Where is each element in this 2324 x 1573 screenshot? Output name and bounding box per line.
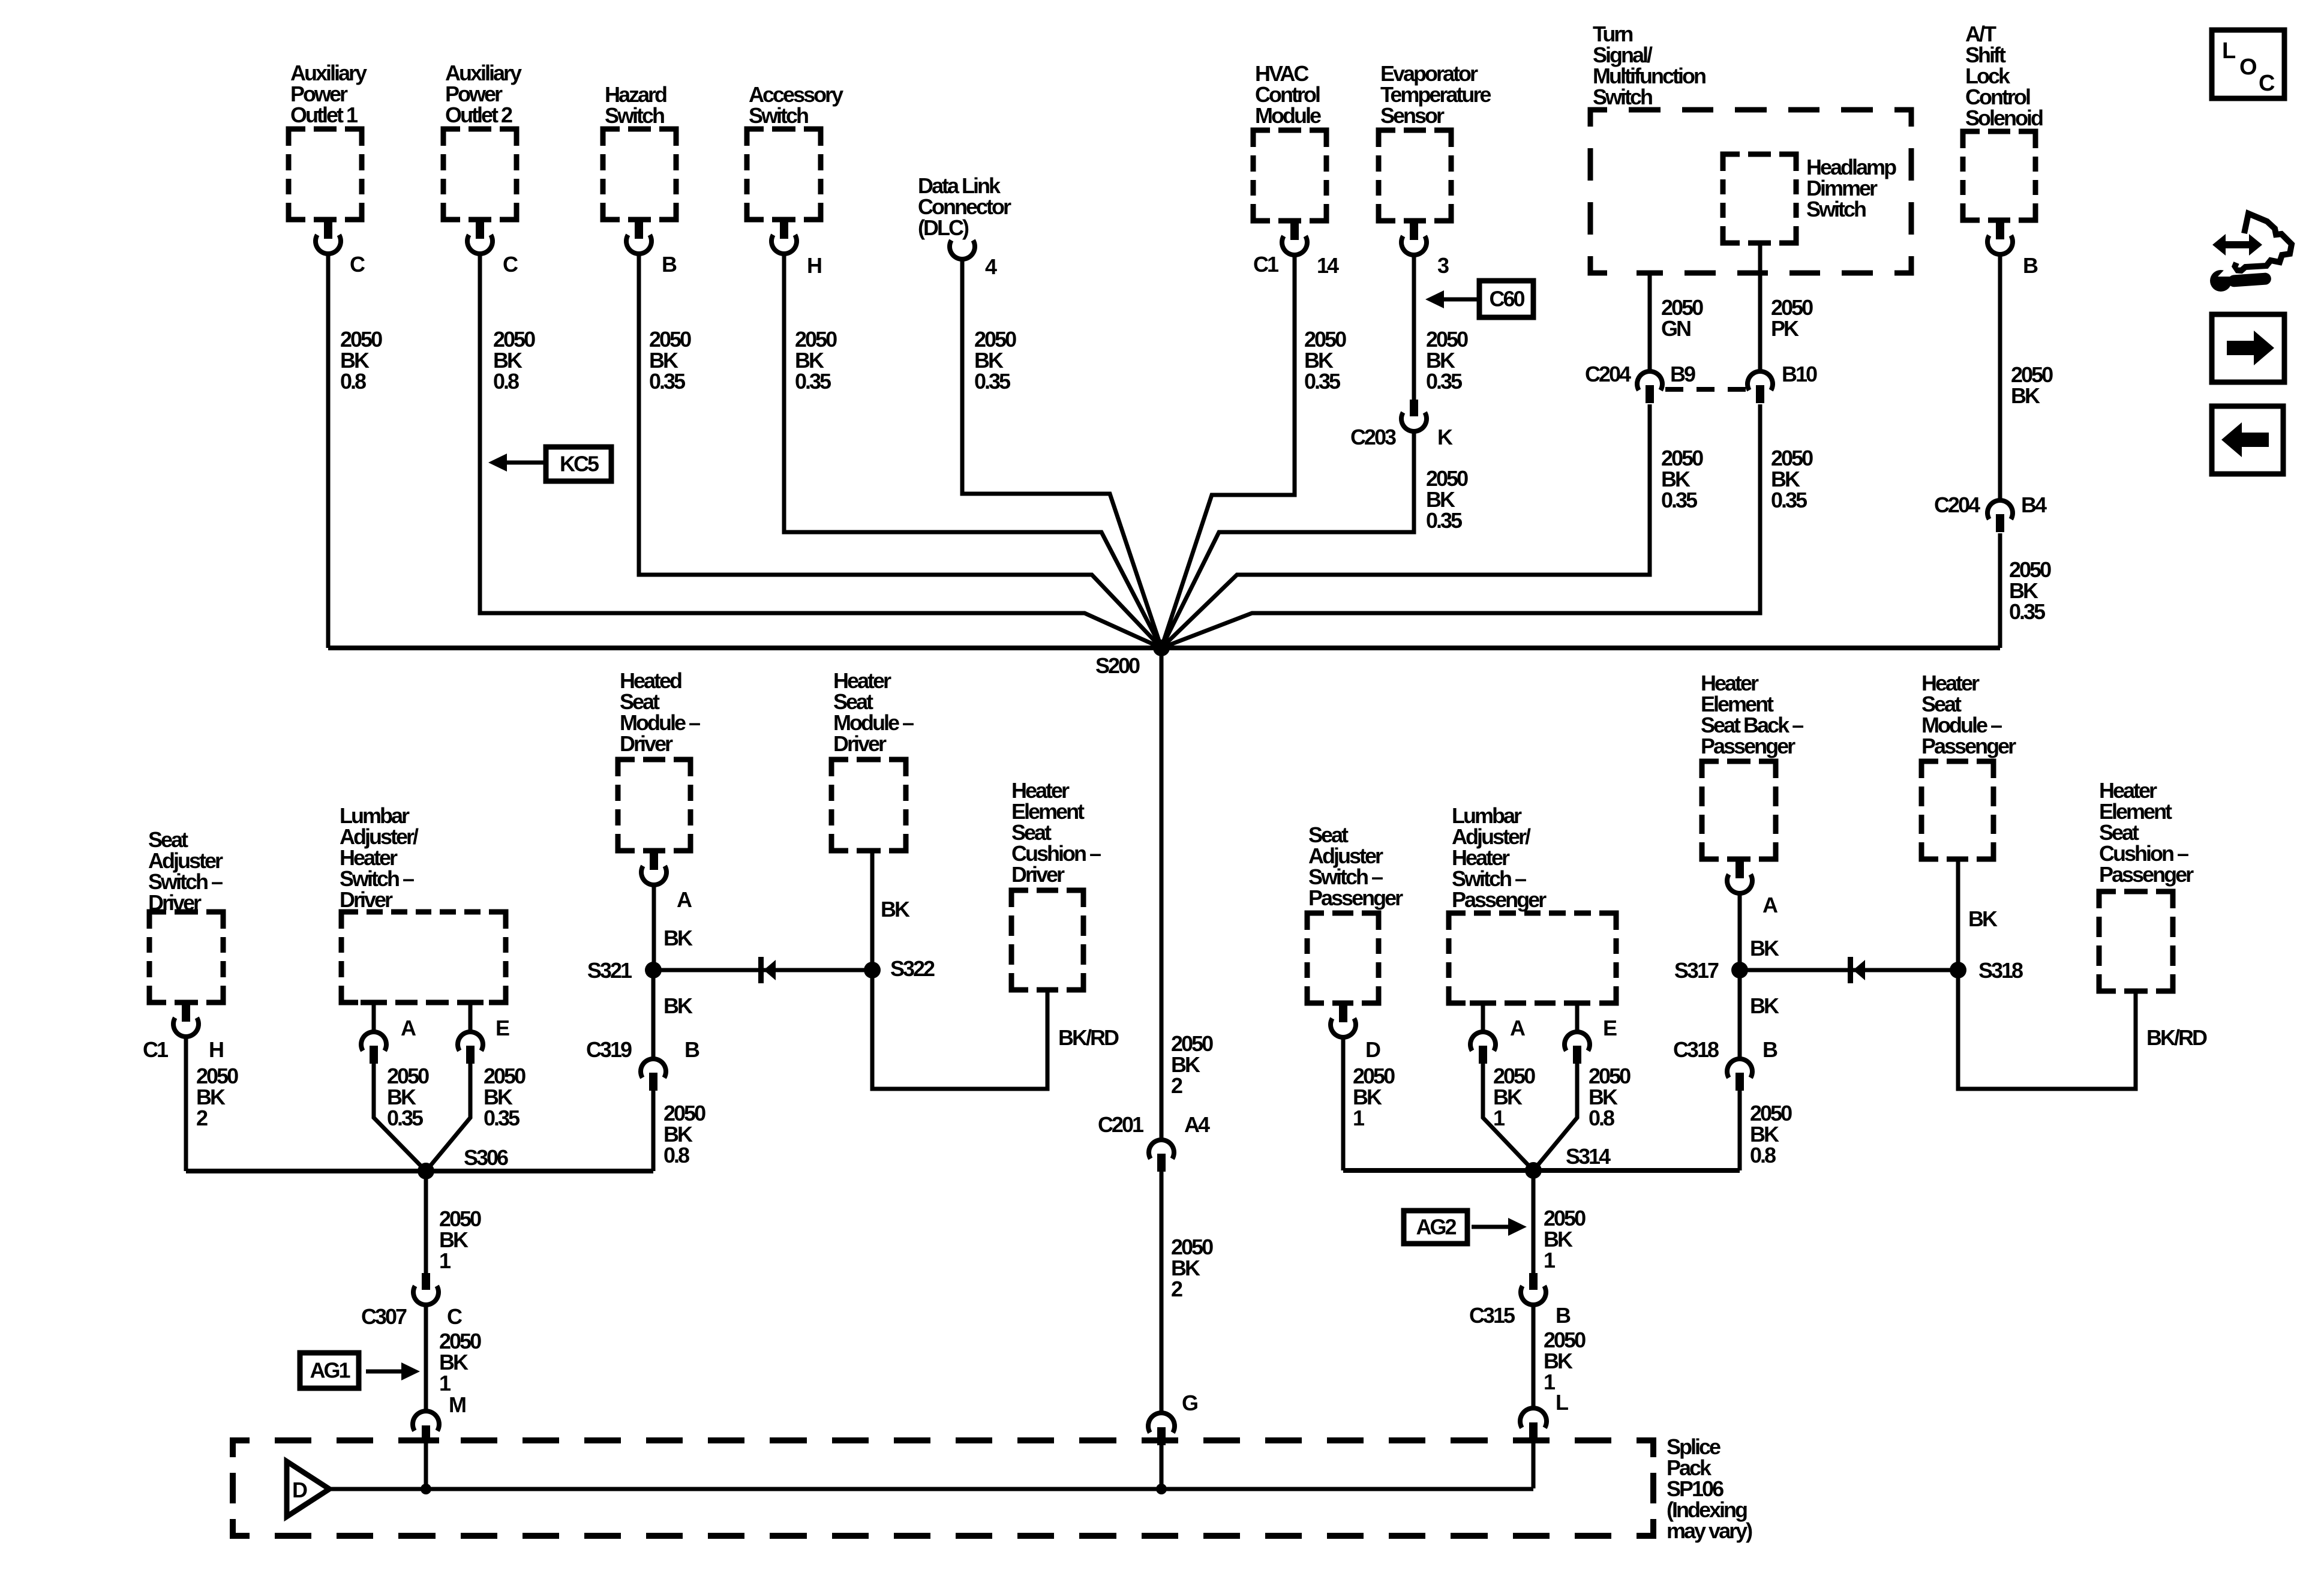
component Accessory Switch <box>747 82 843 220</box>
label C315 <box>1469 1303 1515 1328</box>
wire 2050 GN from turn signal switch to C204 B9 <box>1648 273 1652 371</box>
connector G of splice pack <box>1148 1413 1175 1445</box>
svg-text:C1: C1 <box>1253 252 1279 277</box>
pin letter B (C315) <box>1556 1303 1571 1328</box>
svg-text:0.35: 0.35 <box>484 1106 520 1130</box>
connector C201 A4 <box>1149 1140 1174 1172</box>
label BK (above S322) <box>881 897 910 921</box>
svg-text:Switch: Switch <box>1806 197 1866 221</box>
label 2050 BK 0.35 (lumbar driver E) <box>484 1064 526 1130</box>
svg-text:C204: C204 <box>1934 493 1980 517</box>
connector A of heated seat module driver <box>641 853 666 885</box>
svg-text:L: L <box>2222 38 2236 64</box>
svg-text:0.35: 0.35 <box>2009 599 2046 624</box>
connector A of lumbar driver <box>361 1002 386 1064</box>
label S317 <box>1674 958 1719 983</box>
component Auxiliary Power Outlet 1 <box>289 61 367 220</box>
svg-text:C: C <box>503 252 518 277</box>
label 2050 BK 0.35 (lumbar driver A) <box>387 1064 429 1130</box>
svg-text:2: 2 <box>196 1106 208 1130</box>
component Auxiliary Power Outlet 2 <box>443 61 522 220</box>
label S318 <box>1978 958 2023 983</box>
label 2050 BK 0.35 (accessory) <box>795 327 837 394</box>
wire 2050 BK 0.35 lumbar driver A to S306 <box>374 1064 426 1171</box>
svg-text:1: 1 <box>1544 1248 1556 1272</box>
svg-text:4: 4 <box>985 254 997 279</box>
label BK (above S318) <box>1968 906 1998 931</box>
connector C204 B4 <box>1987 500 2013 532</box>
pin letter A (seat back passenger) <box>1762 893 1778 917</box>
pin letter E (lumbar driver) <box>496 1016 509 1040</box>
component Heater Element Seat Cushion - Driver <box>1011 778 1101 990</box>
pin label C1 (HVAC) <box>1253 252 1279 277</box>
connector C307 C <box>413 1273 439 1305</box>
connector C of Auxiliary Power Outlet 1 <box>316 222 341 254</box>
label 2050 BK 2 (seat adjuster driver) <box>196 1064 238 1130</box>
svg-text:14: 14 <box>1317 253 1339 278</box>
wire 2050 BK 0.8 lumbar passenger E to S314 <box>1533 1064 1577 1170</box>
label 2050 BK 0.35 (evap lower) <box>1426 466 1468 533</box>
label C201 <box>1098 1112 1144 1137</box>
svg-text:B: B <box>1762 1037 1777 1062</box>
svg-text:Driver: Driver <box>1011 862 1065 887</box>
svg-text:0.8: 0.8 <box>340 369 366 394</box>
svg-text:BK/RD: BK/RD <box>1058 1025 1119 1050</box>
pin label C1 (seat adjuster driver) <box>143 1037 169 1062</box>
wire between S321 and S322 <box>653 968 872 972</box>
wire 2050 BK 0.35 from C203 to S200 <box>1161 433 1414 648</box>
svg-text:E: E <box>496 1016 509 1040</box>
wire 2050 BK 1 from S306 to C307 <box>424 1171 428 1273</box>
wire 2050 BK 1 from S314 to C315 <box>1532 1170 1536 1273</box>
wire from L pin into splice pack bus <box>1532 1439 1536 1488</box>
dashed link between C204 B9 and B10 <box>1665 387 1746 392</box>
svg-text:A: A <box>1762 893 1778 917</box>
svg-text:S317: S317 <box>1674 958 1719 983</box>
svg-text:AG2: AG2 <box>1416 1215 1456 1239</box>
label C319 <box>586 1037 632 1062</box>
label 2050 BK 1 (seat adjuster passenger) <box>1353 1064 1395 1130</box>
component Lumbar Adjuster Heater Switch - Passenger <box>1449 803 1616 1003</box>
svg-text:S200: S200 <box>1095 653 1140 678</box>
label 2050 BK 1 (above C307) <box>439 1206 481 1273</box>
pin letter L (splice pack) <box>1556 1390 1568 1415</box>
svg-text:Passenger: Passenger <box>2099 862 2194 887</box>
label 2050 BK 0.8 (lumbar passenger E) <box>1589 1064 1631 1130</box>
reference box KC5 with arrow <box>546 447 611 481</box>
svg-text:0.35: 0.35 <box>1304 369 1341 394</box>
label C204 (B4) <box>1934 493 1980 517</box>
svg-text:B: B <box>662 252 677 277</box>
label 2050 PK <box>1771 295 1813 341</box>
svg-text:BK: BK <box>881 897 910 921</box>
label 2050 BK 0.35 (PK branch) <box>1771 446 1813 512</box>
svg-text:A: A <box>401 1016 416 1040</box>
svg-text:Passenger: Passenger <box>1308 885 1403 910</box>
pin label B9 <box>1670 362 1695 386</box>
svg-text:BK: BK <box>1750 936 1779 960</box>
label BK (above S317) <box>1750 936 1779 960</box>
wire 2050 BK 0.35 from DLC to S200 <box>962 260 1161 648</box>
svg-text:BK: BK <box>663 926 693 950</box>
svg-text:S314: S314 <box>1566 1144 1611 1169</box>
pin label B4 <box>2021 493 2047 517</box>
reference box C60 with arrow <box>1479 281 1533 317</box>
pin letter A (heated seat module driver) <box>677 887 692 912</box>
svg-text:Driver: Driver <box>833 731 887 756</box>
svg-text:(DLC): (DLC) <box>918 215 969 240</box>
svg-text:C204: C204 <box>1585 362 1631 386</box>
label 2050 BK 0.35 (hazard) <box>649 327 691 394</box>
label 2050 BK 0.8 (C319) <box>663 1101 705 1167</box>
svg-text:KC5: KC5 <box>560 452 599 476</box>
label S314 <box>1566 1144 1611 1169</box>
label 2050 BK 0.35 (A/T branch) <box>2009 557 2051 624</box>
svg-text:2: 2 <box>1171 1073 1182 1098</box>
wire 2050 BK 2 from S200 to C201 <box>1160 648 1164 1139</box>
svg-text:2: 2 <box>1171 1277 1182 1301</box>
label BK (below S321) <box>663 993 693 1018</box>
wire from M pin into splice pack bus <box>424 1442 428 1488</box>
svg-text:0.8: 0.8 <box>663 1143 689 1167</box>
svg-text:0.35: 0.35 <box>1426 508 1463 533</box>
component Data Link Connector (DLC) <box>918 173 1011 240</box>
wire 2050 BK 0.35 from accessory switch to S200 <box>784 256 1161 648</box>
label S200 <box>1095 653 1140 678</box>
navigation icon right arrow <box>2212 314 2284 382</box>
passenger seat bus wire to C318 riser <box>1343 1168 1740 1173</box>
connector 3 of Evaporator Temperature Sensor <box>1401 223 1427 255</box>
svg-text:C318: C318 <box>1673 1037 1719 1062</box>
label Splice Pack SP106 <box>1667 1434 1752 1543</box>
svg-text:B: B <box>684 1037 699 1062</box>
driver seat bus wire to C319 riser <box>186 1169 653 1173</box>
connector D of seat adjuster passenger <box>1331 1005 1356 1037</box>
pin letter H (accessory) <box>807 253 821 278</box>
wire 2050 BK 1 from seat adjuster passenger to S314 bus <box>1341 1039 1346 1170</box>
svg-text:C: C <box>2259 71 2275 96</box>
svg-text:Solenoid: Solenoid <box>1965 106 2043 130</box>
connector C203 K <box>1401 400 1427 431</box>
label C204 (B9 B10) <box>1585 362 1631 386</box>
navigation icon left arrow <box>2212 406 2283 474</box>
connector C204 B10 <box>1747 371 1773 403</box>
svg-text:0.35: 0.35 <box>1771 488 1807 512</box>
label BK/RD (driver) <box>1058 1025 1119 1050</box>
wire BK from S321 to C319 <box>651 970 656 1058</box>
connector E of lumbar passenger <box>1565 1003 1590 1064</box>
label 2050 BK 0.35 (evap upper) <box>1426 327 1468 394</box>
svg-text:BK: BK <box>2011 383 2040 408</box>
pin letter 4 (DLC) <box>985 254 997 279</box>
svg-text:0.35: 0.35 <box>387 1106 424 1130</box>
wire 2050 BK 0.35 from evap sensor to C203 <box>1412 257 1416 401</box>
svg-text:C203: C203 <box>1350 425 1396 449</box>
svg-text:0.8: 0.8 <box>1589 1106 1614 1130</box>
wire 2050 BK 0.35 lumbar driver E to S306 <box>426 1064 470 1171</box>
wire 2050 BK 0.35 from C204 B9 to S200 <box>1161 404 1650 648</box>
pin label A4 (C201) <box>1184 1112 1210 1137</box>
pin letter G (splice pack) <box>1182 1391 1197 1415</box>
svg-text:B: B <box>2023 253 2038 278</box>
splice S318 <box>1950 962 1966 978</box>
pin letter C (outlet 2) <box>503 252 518 277</box>
wire 2050 BK 0.8 from C319 to S306 bus <box>651 1091 656 1171</box>
svg-text:S322: S322 <box>890 956 935 981</box>
label 2050 BK 2 (lower) <box>1171 1235 1213 1301</box>
connector C of Auxiliary Power Outlet 2 <box>467 222 493 254</box>
svg-text:Driver: Driver <box>340 887 393 912</box>
svg-text:1: 1 <box>1353 1106 1365 1130</box>
svg-text:B10: B10 <box>1782 362 1817 386</box>
wire 2050 BK 0.35 from C204 B4 to S200 bus <box>1998 533 2002 648</box>
svg-text:C: C <box>350 252 365 277</box>
connector A of heater element seat back passenger <box>1727 861 1752 893</box>
wire BK/RD heater element cushion driver to S322 <box>872 970 1047 1089</box>
pin letter K (C203) <box>1437 425 1453 449</box>
wire 2050 BK 0.8 from C318 to S314 bus <box>1738 1091 1742 1170</box>
wire 2050 BK 1 from C307 to splice pack M <box>424 1307 428 1411</box>
pin letter E (lumbar passenger) <box>1603 1016 1617 1040</box>
svg-text:Outlet 1: Outlet 1 <box>290 103 358 127</box>
svg-text:Switch: Switch <box>1593 85 1652 109</box>
wire 2050 BK 1 lumbar passenger A to S314 <box>1483 1064 1533 1170</box>
svg-text:Switch: Switch <box>749 103 808 128</box>
label 2050 BK 0.35 (GN branch) <box>1661 446 1703 512</box>
svg-text:0.8: 0.8 <box>493 369 519 394</box>
svg-text:A4: A4 <box>1184 1112 1210 1137</box>
svg-text:B: B <box>1556 1303 1571 1328</box>
label 2050 BK 1 (lumbar passenger A) <box>1493 1064 1535 1130</box>
label BK (above S321) <box>663 926 693 950</box>
component Seat Adjuster Switch - Passenger <box>1307 822 1403 1003</box>
svg-text:GN: GN <box>1661 316 1691 341</box>
one-way splice indicator on S321-S322 wire <box>758 957 776 983</box>
svg-text:Module: Module <box>1255 103 1321 128</box>
svg-text:O: O <box>2239 55 2256 80</box>
label 2050 BK 0.8 (outlet 1) <box>340 327 382 394</box>
label 2050 BK 0.8 (outlet 2) <box>493 327 535 394</box>
connector 4 of DLC <box>950 241 975 259</box>
label 2050 BK 1 (below C307) <box>439 1329 481 1395</box>
label S322 <box>890 956 935 981</box>
svg-text:L: L <box>1556 1390 1568 1415</box>
component Turn Signal Multifunction Switch <box>1590 22 1911 273</box>
label C203 <box>1350 425 1396 449</box>
connector B of A/T shift lock solenoid <box>1987 223 2013 254</box>
svg-text:C1: C1 <box>143 1037 169 1062</box>
label BK (below S317) <box>1750 993 1779 1018</box>
svg-text:Passenger: Passenger <box>1701 734 1795 758</box>
label 2050 BK 0.35 (HVAC) <box>1304 327 1346 394</box>
svg-text:B4: B4 <box>2021 493 2047 517</box>
component HVAC Control Module <box>1253 61 1326 221</box>
svg-text:AG1: AG1 <box>310 1358 350 1383</box>
wire 2050 BK 0.35 from hazard switch to S200 <box>639 256 1161 648</box>
connector C204 B9 <box>1637 371 1662 403</box>
svg-text:M: M <box>449 1392 466 1417</box>
pin number 3 (evap) <box>1437 253 1449 278</box>
svg-text:H: H <box>807 253 821 278</box>
svg-text:may vary): may vary) <box>1667 1518 1752 1543</box>
splice pack internal bus <box>329 1487 1533 1491</box>
label 2050 BK 1 (above C315) <box>1544 1206 1586 1272</box>
wire BK from S317 to C318 <box>1738 970 1742 1058</box>
diagnostic icon with double arrow and wrench <box>2210 214 2292 292</box>
svg-text:D: D <box>292 1478 307 1502</box>
svg-text:B9: B9 <box>1670 362 1695 386</box>
svg-text:0.35: 0.35 <box>649 369 686 394</box>
junction dot at G on splice pack bus <box>1156 1484 1167 1494</box>
legend box LOC <box>2212 30 2284 98</box>
connector C1 H of seat adjuster driver <box>173 1005 199 1037</box>
svg-text:BK: BK <box>663 993 693 1018</box>
wire 2050 BK from A/T solenoid to C204 B4 <box>1998 256 2002 500</box>
wire 2050 BK 0.8 from outlet 2 to S200 <box>480 256 1161 648</box>
connector C1 14 of HVAC Control Module <box>1282 223 1307 255</box>
component Heater Seat Module - Passenger <box>1921 671 2016 859</box>
svg-text:0.8: 0.8 <box>1750 1143 1776 1167</box>
pin letter H (seat adjuster driver) <box>209 1037 223 1062</box>
svg-text:S321: S321 <box>587 958 632 983</box>
component Heater Element Seat Cushion - Passenger <box>2099 778 2194 991</box>
svg-text:A: A <box>677 887 692 912</box>
wire between S317 and S318 <box>1740 968 1958 972</box>
component Evaporator Temperature Sensor <box>1379 61 1491 221</box>
component Lumbar Adjuster Heater Switch - Driver <box>340 803 506 1002</box>
svg-text:K: K <box>1437 425 1453 449</box>
component A/T Shift Lock Control Solenoid <box>1963 22 2043 220</box>
pin number 14 (HVAC) <box>1317 253 1339 278</box>
pin letter A (lumbar passenger) <box>1510 1016 1526 1040</box>
svg-text:Driver: Driver <box>620 731 673 756</box>
label 2050 BK 1 (below C315) <box>1544 1328 1586 1394</box>
svg-text:C60: C60 <box>1489 287 1524 311</box>
pin letter B (hazard) <box>662 252 677 277</box>
pin letter C (outlet 1) <box>350 252 365 277</box>
label 2050 BK 2 (upper) <box>1171 1031 1213 1098</box>
wire BK heated seat module driver to S321 <box>652 887 656 970</box>
svg-text:0.35: 0.35 <box>1661 488 1698 512</box>
svg-text:C319: C319 <box>586 1037 632 1062</box>
connector C315 B <box>1521 1273 1546 1305</box>
svg-text:3: 3 <box>1437 253 1449 278</box>
svg-text:H: H <box>209 1037 223 1062</box>
splice S321 <box>645 962 662 978</box>
component Heater Element Seat Back - Passenger <box>1701 671 1803 859</box>
label 2050 BK 0.8 (C318) <box>1750 1101 1792 1167</box>
svg-text:Switch: Switch <box>605 103 664 128</box>
svg-text:1: 1 <box>439 1248 451 1273</box>
svg-text:BK: BK <box>1750 993 1779 1018</box>
svg-text:Passenger: Passenger <box>1452 887 1547 912</box>
svg-text:E: E <box>1603 1016 1617 1040</box>
pin letter A (lumbar driver) <box>401 1016 416 1040</box>
reference box AG2 with arrow <box>1404 1211 1467 1244</box>
wire BK heater seat module driver to S322 <box>870 851 875 970</box>
label 2050 BK (A/T) <box>2011 362 2053 408</box>
svg-text:PK: PK <box>1771 316 1799 341</box>
label 2050 GN <box>1661 295 1703 341</box>
svg-text:S306: S306 <box>464 1145 508 1170</box>
wire 2050 BK 0.35 from C204 B10 to S200 <box>1161 404 1760 648</box>
component Hazard Switch <box>603 82 676 220</box>
label C307 <box>361 1304 407 1329</box>
svg-text:1: 1 <box>1544 1370 1556 1394</box>
component Headlamp Dimmer Switch <box>1723 154 1896 243</box>
splice S317 <box>1731 962 1748 978</box>
svg-text:C201: C201 <box>1098 1112 1144 1137</box>
pin letter B (C318) <box>1762 1037 1777 1062</box>
connector A of lumbar passenger <box>1470 1003 1496 1064</box>
component Seat Adjuster Switch - Driver <box>148 827 223 1002</box>
junction dot at M on splice pack bus <box>421 1484 431 1494</box>
svg-text:C315: C315 <box>1469 1303 1515 1328</box>
connector C318 B <box>1727 1059 1752 1091</box>
wire BK/RD heater element cushion passenger to S318 <box>1958 970 2136 1089</box>
one-way splice indicator on S317-S318 wire <box>1848 957 1865 983</box>
connector H of Accessory Switch <box>771 222 797 254</box>
ground terminal D triangle <box>287 1461 329 1517</box>
splice S306 <box>418 1163 434 1179</box>
svg-text:C307: C307 <box>361 1304 407 1329</box>
svg-text:G: G <box>1182 1391 1197 1415</box>
pin letter B (A/T) <box>2023 253 2038 278</box>
wire 2050 BK 0.35 from HVAC to S200 <box>1161 257 1295 648</box>
wire 2050 PK from headlamp dimmer switch to C204 B10 <box>1758 243 1762 371</box>
svg-text:D: D <box>1365 1037 1380 1062</box>
wire 2050 BK 2 from C201 to splice pack G <box>1160 1172 1164 1413</box>
svg-text:Outlet 2: Outlet 2 <box>445 103 512 127</box>
svg-text:0.35: 0.35 <box>1426 369 1463 394</box>
splice S314 <box>1525 1162 1542 1179</box>
pin label B10 <box>1782 362 1817 386</box>
svg-text:0.35: 0.35 <box>974 369 1011 394</box>
svg-text:Sensor: Sensor <box>1380 103 1445 128</box>
svg-text:1: 1 <box>1493 1106 1505 1130</box>
wire 2050 BK 0.8 from outlet 1 to S200 <box>326 256 331 648</box>
main ground bus wire through S200 <box>328 646 2000 650</box>
svg-text:1: 1 <box>439 1371 451 1395</box>
pin letter C (C307) <box>447 1304 463 1329</box>
svg-text:S318: S318 <box>1978 958 2023 983</box>
connector M of splice pack <box>413 1411 439 1443</box>
wire BK heater seat module passenger to S318 <box>1956 859 1960 970</box>
label 2050 BK 0.35 (DLC) <box>974 327 1016 394</box>
label C318 <box>1673 1037 1719 1062</box>
label S306 <box>464 1145 508 1170</box>
wire 2050 BK 2 from seat adjuster driver to S306 bus <box>184 1038 188 1171</box>
svg-text:0.35: 0.35 <box>795 369 831 394</box>
connector B of Hazard Switch <box>626 222 651 254</box>
reference box AG1 with arrow <box>300 1353 359 1388</box>
wire from G pin into splice pack bus <box>1160 1444 1164 1488</box>
component Heater Seat Module - Driver <box>831 668 914 851</box>
component Heated Seat Module - Driver <box>618 668 700 851</box>
connector E of lumbar driver <box>458 1002 483 1064</box>
svg-text:BK: BK <box>1968 906 1998 931</box>
connector C319 B <box>641 1059 666 1091</box>
pin letter M (splice pack) <box>449 1392 466 1417</box>
splice S322 <box>864 962 881 978</box>
splice pack SP106 dashed enclosure <box>233 1440 1653 1536</box>
label S321 <box>587 958 632 983</box>
connector L of splice pack <box>1520 1408 1547 1440</box>
pin letter B (C319) <box>684 1037 699 1062</box>
pin letter D (seat adjuster passenger) <box>1365 1037 1380 1062</box>
wire BK seat back passenger to S317 <box>1738 895 1742 970</box>
splice S200 <box>1153 640 1170 656</box>
